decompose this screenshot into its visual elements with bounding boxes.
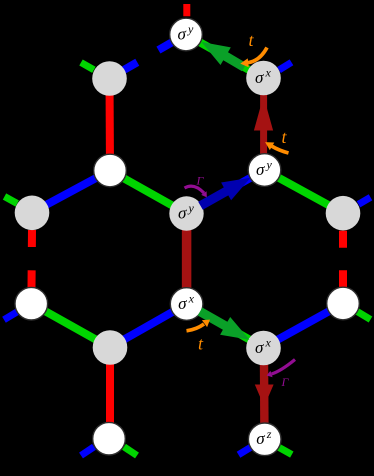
svg-text:Γ: Γ xyxy=(281,375,290,389)
svg-text:σ: σ xyxy=(255,338,264,357)
svg-text:y: y xyxy=(188,201,195,215)
svg-text:x: x xyxy=(265,66,272,80)
svg-text:x: x xyxy=(265,336,272,350)
svg-text:σ: σ xyxy=(178,203,187,222)
svg-text:σ: σ xyxy=(255,68,264,87)
svg-text:σ: σ xyxy=(256,160,265,179)
svg-text:σ: σ xyxy=(178,294,187,313)
svg-text:y: y xyxy=(187,22,194,36)
svg-text:σ: σ xyxy=(256,429,265,448)
svg-text:Γ: Γ xyxy=(196,174,205,188)
svg-text:y: y xyxy=(266,158,273,172)
svg-text:x: x xyxy=(188,292,195,306)
svg-text:z: z xyxy=(266,427,272,441)
svg-text:σ: σ xyxy=(178,24,187,43)
